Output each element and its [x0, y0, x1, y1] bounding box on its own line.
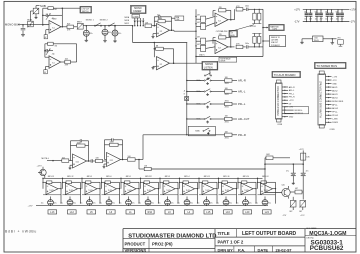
svg-text:SUBa: SUBa — [196, 80, 200, 82]
svg-text:L-MIX: L-MIX — [332, 119, 338, 121]
svg-text:4K7: 4K7 — [197, 22, 200, 24]
svg-text:AFL-R: AFL-R — [238, 79, 246, 83]
svg-text:22u: 22u — [190, 202, 193, 204]
svg-text:2K05: 2K05 — [225, 122, 229, 124]
svg-text:PFL-L: PFL-L — [289, 93, 295, 95]
svg-text:DRIVE: DRIVE — [221, 60, 226, 62]
svg-text:L15: L15 — [206, 211, 211, 214]
svg-text:MONO BUS: MONO BUS — [332, 101, 344, 103]
svg-text:C80: C80 — [304, 12, 307, 14]
svg-text:TO AUX BOARD: TO AUX BOARD — [274, 73, 296, 77]
svg-text:+17V: +17V — [37, 165, 43, 167]
svg-text:-17V: -17V — [289, 107, 294, 109]
svg-text:AUX1: AUX1 — [332, 86, 338, 89]
svg-text:VERSIONS: VERSIONS — [125, 248, 147, 253]
svg-text:PFL-R: PFL-R — [238, 133, 246, 137]
svg-text:AFL-L: AFL-L — [238, 90, 246, 94]
svg-text:+17V: +17V — [350, 9, 356, 12]
svg-text:MONO 2: MONO 2 — [100, 20, 109, 22]
svg-text:2K05: 2K05 — [225, 83, 229, 85]
svg-text:PFL-R: PFL-R — [289, 97, 295, 99]
svg-text:SET: SET — [289, 211, 292, 213]
svg-text:10u: 10u — [255, 203, 258, 205]
svg-text:JMP-L12: JMP-L12 — [67, 176, 73, 178]
svg-text:47p: 47p — [52, 53, 55, 55]
svg-text:MONO-R: MONO-R — [295, 113, 304, 115]
svg-text:TO MIXER BUS: TO MIXER BUS — [316, 64, 337, 68]
svg-text:JMP-L6: JMP-L6 — [106, 176, 112, 178]
svg-text:78L05: 78L05 — [314, 40, 319, 42]
svg-text:AFL-L: AFL-L — [332, 103, 338, 106]
svg-text:SUB: SUB — [40, 4, 46, 8]
svg-text:10u: 10u — [177, 203, 180, 205]
svg-text:JMP-L15: JMP-L15 — [204, 176, 210, 178]
svg-text:TL072: TL072 — [225, 190, 229, 192]
svg-text:22u: 22u — [132, 202, 135, 204]
svg-text:BdBr + nWdBu: BdBr + nWdBu — [5, 229, 37, 233]
svg-text:-17V: -17V — [28, 205, 33, 207]
svg-text:10u: 10u — [99, 203, 102, 205]
svg-text:TL072: TL072 — [88, 190, 92, 192]
svg-text:47u: 47u — [286, 171, 289, 173]
svg-text:2K05: 2K05 — [225, 94, 229, 96]
svg-text:LEFT OUTPUT BOARD: LEFT OUTPUT BOARD — [242, 231, 297, 237]
svg-text:B: B — [184, 94, 185, 96]
svg-text:STUDIOMASTER DIAMOND LTD: STUDIOMASTER DIAMOND LTD — [128, 233, 216, 239]
svg-text:SUBb: SUBb — [195, 131, 199, 133]
svg-text:47u: 47u — [90, 33, 93, 35]
svg-text:+17V: +17V — [289, 100, 294, 102]
svg-text:IC2: IC2 — [160, 31, 163, 33]
svg-text:TL072: TL072 — [205, 190, 209, 192]
svg-text:22u: 22u — [73, 202, 76, 204]
svg-text:10u: 10u — [197, 203, 200, 205]
svg-text:PFL-L: PFL-L — [332, 112, 338, 114]
svg-text:22u: 22u — [54, 202, 57, 204]
svg-text:100n: 100n — [245, 6, 249, 8]
svg-text:PFL-R: PFL-R — [332, 115, 338, 117]
svg-text:22u: 22u — [112, 202, 115, 204]
svg-text:47u: 47u — [118, 33, 121, 35]
svg-text:TL072: TL072 — [166, 190, 170, 192]
svg-text:IC3: IC3 — [218, 20, 221, 22]
svg-text:ALL/MIX BUS CONNECTOR No2: ALL/MIX BUS CONNECTOR No2 — [320, 81, 323, 118]
svg-text:GND: GND — [332, 83, 337, 85]
svg-text:SUBa: SUBa — [196, 119, 200, 121]
svg-text:AFL-R: AFL-R — [289, 86, 295, 89]
svg-text:FADER: FADER — [133, 10, 141, 13]
svg-text:CONN: CONN — [133, 16, 139, 18]
svg-text:26-02-97: 26-02-97 — [276, 248, 293, 253]
svg-text:L13: L13 — [50, 211, 55, 214]
svg-text:R12: R12 — [148, 211, 153, 214]
svg-text:AUX3: AUX3 — [332, 93, 338, 96]
svg-text:10u: 10u — [216, 203, 219, 205]
svg-text:JMP-L3: JMP-L3 — [165, 176, 171, 178]
svg-text:IC12: IC12 — [110, 160, 113, 162]
svg-text:TITLE: TITLE — [218, 231, 230, 236]
svg-text:AUX2: AUX2 — [332, 89, 338, 92]
svg-text:MF1C: MF1C — [125, 23, 130, 25]
svg-text:10u: 10u — [60, 203, 63, 205]
svg-text:+17V: +17V — [332, 76, 337, 78]
svg-text:4K7: 4K7 — [197, 44, 200, 46]
svg-text:TL072: TL072 — [69, 190, 73, 192]
svg-text:2K05: 2K05 — [225, 107, 229, 109]
svg-text:TL072: TL072 — [244, 190, 248, 192]
svg-text:22u: 22u — [171, 202, 174, 204]
svg-text:SWITCH: SWITCH — [82, 11, 89, 13]
svg-text:4K7: 4K7 — [197, 37, 200, 39]
svg-text:SUBa: SUBa — [196, 91, 200, 93]
svg-text:GND: GND — [289, 117, 294, 119]
svg-text:JMP-L5: JMP-L5 — [87, 176, 93, 178]
svg-text:MONO BUS: MONO BUS — [5, 23, 20, 27]
svg-text:(L&R): (L&R) — [272, 29, 277, 31]
svg-text:+17V: +17V — [294, 9, 300, 12]
svg-text:47u: 47u — [306, 171, 309, 173]
svg-text:TL072: TL072 — [186, 190, 190, 192]
svg-text:IC3: IC3 — [218, 48, 221, 50]
svg-text:R-MIX: R-MIX — [332, 122, 338, 124]
svg-text:-17V: -17V — [332, 80, 337, 82]
svg-text:AFL-R: AFL-R — [332, 107, 338, 110]
svg-text:JMP-R12: JMP-R12 — [145, 176, 152, 178]
svg-text:IC1: IC1 — [52, 27, 55, 29]
svg-text:22u: 22u — [268, 202, 271, 204]
svg-text:JMP-L20: JMP-L20 — [243, 176, 249, 178]
svg-text:TL072: TL072 — [108, 190, 112, 192]
svg-text:22u: 22u — [93, 202, 96, 204]
svg-text:10u: 10u — [304, 18, 307, 20]
svg-text:R07: R07 — [67, 24, 70, 26]
svg-text:PFL-L: PFL-L — [238, 102, 246, 106]
svg-text:-17V: -17V — [350, 20, 355, 23]
svg-text:LISTEN: LISTEN — [204, 67, 213, 70]
svg-text:DRN BY: DRN BY — [218, 248, 234, 253]
svg-text:0V: 0V — [45, 37, 47, 39]
svg-text:10u: 10u — [158, 203, 161, 205]
svg-text:LINK: LINK — [176, 19, 179, 21]
svg-text:0V: 0V — [44, 72, 46, 74]
svg-text:P.A.: P.A. — [238, 248, 245, 253]
svg-text:47p: 47p — [157, 14, 160, 16]
svg-text:VR1: VR1 — [337, 37, 340, 39]
svg-text:AFL-L: AFL-L — [289, 89, 295, 92]
svg-text:PCB ASSY: PCB ASSY — [271, 44, 281, 47]
svg-text:C80: C80 — [315, 12, 318, 14]
svg-text:TL072: TL072 — [147, 190, 151, 192]
svg-text:IC2: IC2 — [160, 64, 163, 66]
svg-text:4K7: 4K7 — [295, 188, 298, 190]
svg-text:10u: 10u — [336, 18, 339, 20]
svg-text:10u: 10u — [138, 203, 141, 205]
svg-text:10u: 10u — [41, 203, 44, 205]
svg-text:MIX L/R: MIX L/R — [250, 26, 257, 28]
svg-text:PRO2 (P6): PRO2 (P6) — [152, 241, 173, 246]
svg-text:IC1: IC1 — [52, 63, 55, 65]
svg-text:47p: 47p — [52, 18, 55, 20]
svg-text:L12: L12 — [70, 211, 75, 214]
svg-text:L20: L20 — [245, 211, 250, 214]
svg-text:AUX4: AUX4 — [332, 96, 338, 99]
svg-text:22u: 22u — [210, 202, 213, 204]
svg-text:JMP-L16: JMP-L16 — [223, 176, 229, 178]
svg-text:PCBUSU62: PCBUSU62 — [310, 245, 344, 252]
svg-text:100n: 100n — [245, 43, 249, 45]
svg-text:L24: L24 — [265, 211, 270, 214]
svg-text:22u: 22u — [229, 202, 232, 204]
svg-text:TL072: TL072 — [264, 190, 268, 192]
svg-text:SUBa: SUBa — [196, 104, 200, 106]
svg-text:10u: 10u — [119, 203, 122, 205]
svg-text:MUTE-L: MUTE-L — [42, 158, 50, 160]
svg-text:CUT/PAN 4558: CUT/PAN 4558 — [216, 30, 228, 33]
svg-text:-17V: -17V — [294, 20, 300, 23]
svg-text:Q10: Q10 — [282, 184, 285, 186]
svg-text:POWER I/O CONNECTOR: POWER I/O CONNECTOR — [277, 86, 280, 116]
svg-text:PRODUCT: PRODUCT — [125, 241, 146, 246]
svg-text:MQC3A-1.OGM: MQC3A-1.OGM — [309, 231, 346, 237]
svg-text:2K05: 2K05 — [225, 137, 229, 139]
svg-text:JMP-L4: JMP-L4 — [184, 176, 190, 178]
svg-text:CONN: CONN — [330, 129, 336, 131]
svg-text:L16: L16 — [226, 211, 231, 214]
svg-text:MR07: MR07 — [77, 22, 82, 24]
svg-text:SET: SET — [299, 211, 302, 213]
svg-text:10u: 10u — [315, 18, 318, 20]
svg-text:TL072: TL072 — [127, 190, 131, 192]
svg-text:MVR3: MVR3 — [27, 19, 32, 21]
svg-text:JMP-L1: JMP-L1 — [126, 176, 132, 178]
svg-text:DATE: DATE — [258, 248, 269, 253]
svg-text:IC12: IC12 — [76, 162, 79, 164]
svg-text:MONO 1: MONO 1 — [86, 20, 95, 22]
svg-text:10u: 10u — [236, 203, 239, 205]
svg-text:TL072: TL072 — [49, 190, 53, 192]
svg-text:22u: 22u — [151, 202, 154, 204]
svg-text:2K05: 2K05 — [225, 101, 229, 103]
svg-text:JMP-L13: JMP-L13 — [48, 176, 54, 178]
svg-text:4K7: 4K7 — [197, 15, 200, 17]
svg-text:10u: 10u — [325, 18, 328, 20]
svg-text:C80: C80 — [325, 12, 328, 14]
svg-text:AFL-CUT: AFL-CUT — [238, 117, 250, 121]
svg-text:PART 1 OF 2: PART 1 OF 2 — [218, 240, 244, 245]
svg-text:MONO-L: MONO-L — [295, 110, 304, 112]
svg-text:CONN: CONN — [277, 124, 283, 126]
svg-text:47u: 47u — [108, 32, 111, 34]
svg-text:22u: 22u — [249, 202, 252, 204]
svg-text:10u: 10u — [80, 203, 83, 205]
svg-text:C80: C80 — [336, 12, 339, 14]
svg-text:FILE NAME: FILE NAME — [307, 227, 318, 230]
svg-text:VIA OUT: VIA OUT — [271, 41, 279, 44]
